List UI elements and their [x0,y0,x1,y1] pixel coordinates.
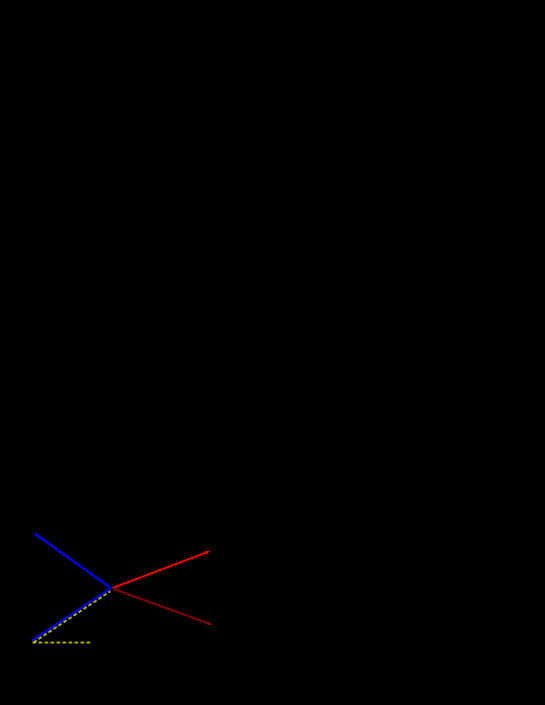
dark red arrowhead [207,621,213,625]
blue reflected ray with arrow [38,536,111,588]
dashed yellow horizontal reference line [33,642,93,644]
solid blue incident ray [32,588,111,641]
dashed yellow incident-direction line [34,591,111,642]
blue arrowhead [33,533,39,538]
red ray up-right [113,553,206,588]
dark red ray down-right [113,589,208,624]
red arrowhead [205,551,211,555]
